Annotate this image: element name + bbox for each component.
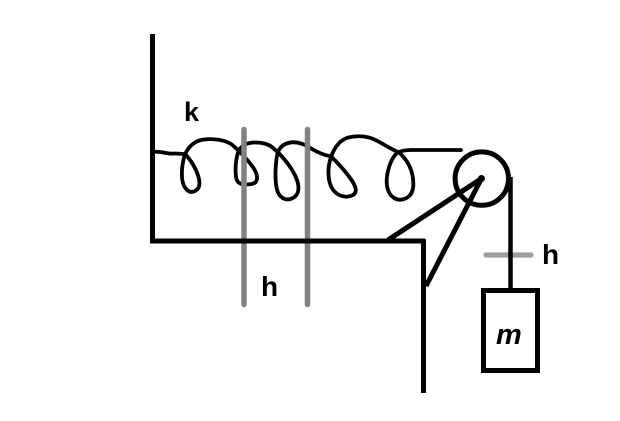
table top (150, 239, 425, 244)
svg-text:h: h (261, 271, 278, 302)
measurement line h (left gray vertical 1) (241, 130, 247, 305)
pulley wheel (455, 152, 508, 205)
svg-text:k: k (184, 97, 200, 127)
pulley support arm (steep) (426, 179, 482, 287)
wall (150, 34, 155, 241)
measurement line h (left gray vertical 2) (305, 130, 311, 305)
pulley support arm (shallow) (388, 179, 482, 241)
rope from pulley to mass (508, 177, 513, 290)
table edge vertical (421, 239, 426, 393)
label h (right, near rope) (542, 239, 559, 270)
spring k (coil) (153, 136, 461, 199)
mass block m (484, 291, 538, 371)
label h (left, between gray lines) (261, 271, 278, 302)
label m (496, 319, 522, 351)
svg-text:m: m (496, 319, 522, 351)
svg-text:h: h (542, 239, 559, 270)
measurement tick h (gray, on rope) (486, 252, 531, 257)
label k (184, 97, 200, 127)
pulley axle dot (478, 175, 485, 182)
